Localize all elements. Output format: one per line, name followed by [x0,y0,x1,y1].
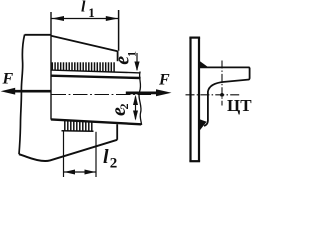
svg-text:2: 2 [110,155,118,171]
svg-text:1: 1 [88,5,95,20]
svg-text:F: F [158,72,170,89]
svg-text:F: F [2,71,14,88]
svg-text:1: 1 [125,51,139,57]
svg-text:2: 2 [117,104,131,110]
svg-text:l: l [103,146,109,168]
svg-text:ЦТ: ЦТ [227,96,252,115]
svg-text:l: l [81,0,86,16]
